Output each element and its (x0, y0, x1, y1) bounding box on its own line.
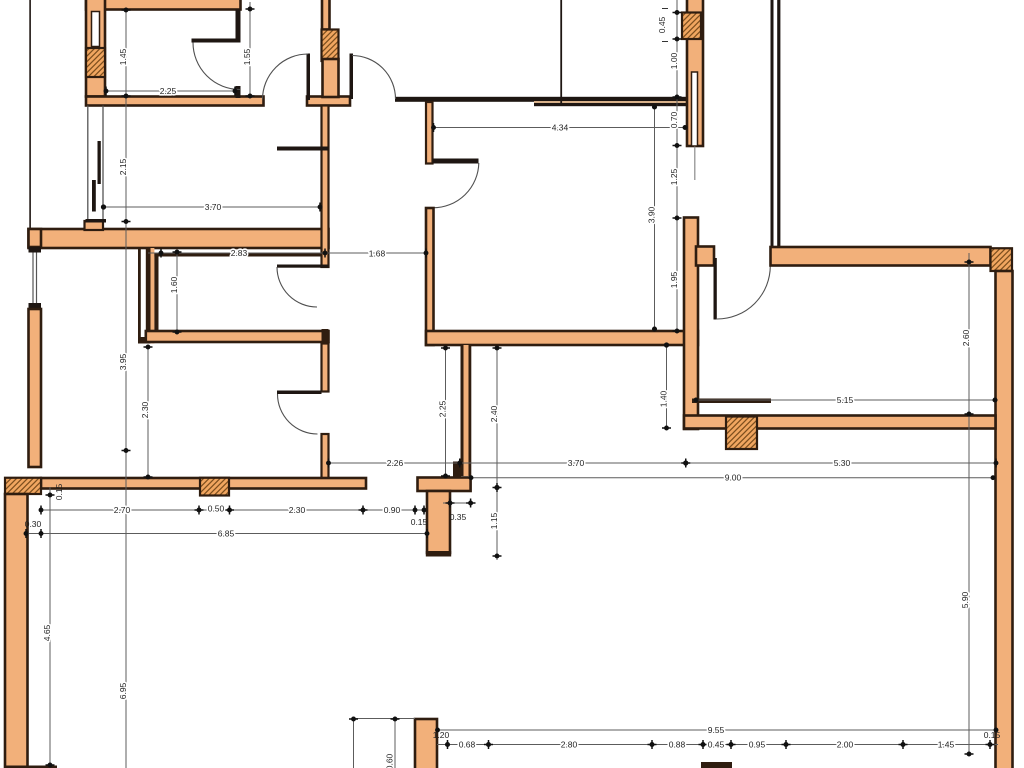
svg-text:0.35: 0.35 (450, 512, 467, 522)
window W4 sill line down (694, 147, 696, 181)
wall L bottom left horizontal (41, 478, 366, 489)
T-wall stem (427, 491, 450, 553)
wall A main horizontal (29, 229, 329, 248)
svg-text:4.34: 4.34 (552, 123, 569, 133)
svg-text:1.60: 1.60 (169, 276, 179, 293)
dim line vertical x654.5 (3.90) (654, 105, 656, 331)
hatched pier P6 (726, 417, 757, 450)
hatched pier P2 (5, 478, 41, 494)
bathroom second line left (146, 248, 151, 344)
dim line horizontal y503 (0.35) (443, 502, 476, 504)
hatched pier P4 top-mid (322, 30, 339, 62)
dim line horizontal y91 (2.25) (105, 90, 236, 92)
thin wall top (x395-533) (395, 97, 534, 102)
bathroom inner face top (154, 253, 321, 257)
black partition stub top-left room (236, 86, 241, 98)
wall E vertical (426, 208, 434, 345)
dim line horizontal y400 (5.15) (695, 399, 997, 401)
svg-text:0.95: 0.95 (749, 740, 766, 750)
svg-text:2.30: 2.30 (140, 401, 150, 418)
black partition jamb top-left room (236, 10, 241, 41)
thin wall top (x533-687) upper line (534, 97, 687, 101)
svg-text:2.25: 2.25 (438, 400, 448, 417)
wall left column upper (86, 0, 105, 97)
svg-text:1.00: 1.00 (669, 52, 679, 69)
bottom-right dark stub (701, 762, 732, 768)
svg-text:0.68: 0.68 (459, 740, 476, 750)
wall left exterior mid lower part (29, 309, 42, 467)
dim chain horizontal y510 (2.70/0.50/2.30/0.90/0.15) (41, 509, 424, 511)
partition D segment 2 (322, 344, 329, 392)
wall top-mid column above pier (322, 0, 330, 30)
dim line horizontal y533.5 (0.30/6.85) (25, 533, 427, 535)
svg-text:9.55: 9.55 (708, 725, 725, 735)
wall K right exterior (996, 271, 1013, 768)
window W3 cap bottom (29, 303, 42, 309)
svg-text:2.25: 2.25 (160, 86, 177, 96)
wall stub above door D3 (426, 102, 433, 164)
hatched pier P1 left column (86, 48, 105, 77)
window W2 leaf bar upper (98, 141, 101, 184)
door D5 arc (278, 394, 318, 434)
partition D dark joint at wall B (322, 329, 329, 344)
closet divider line (277, 147, 329, 151)
door D2 leaf (350, 54, 354, 100)
dim chain vertical x969 (2.60/5.90) (968, 253, 970, 756)
dim line vertical x497 (2.40/1.15) (496, 346, 498, 560)
wall I vertical right of hall (684, 218, 698, 430)
bottom stub wall (415, 719, 437, 768)
svg-text:0.30: 0.30 (25, 519, 42, 529)
wall B bathroom bottom (146, 331, 329, 342)
thin wall jog dark (453, 462, 461, 478)
dim line vertical x50 (0.15/4.65) (49, 487, 51, 767)
svg-text:0.45: 0.45 (708, 740, 725, 750)
door D4 leaf (277, 265, 329, 268)
dim line vertical x666.5 (1.40) (666, 343, 668, 429)
svg-text:3.70: 3.70 (568, 458, 585, 468)
double line partition upper right b (777, 0, 780, 247)
partition D segment 3 (322, 434, 329, 479)
svg-text:2.70: 2.70 (114, 505, 131, 515)
svg-text:1.95: 1.95 (669, 271, 679, 288)
dim chain vertical x677 (0.45/1.00/0.70/1.25/1.95) (676, 0, 678, 331)
window W1 in left column (92, 12, 100, 47)
dim line vertical x250 (1.55) (249, 2, 251, 97)
svg-text:6.95: 6.95 (118, 682, 128, 699)
dim chain vertical x126 (1.45/2.15/3.95/6.95) (125, 8, 127, 768)
door D4 arc (277, 267, 317, 307)
dim line horizontal y477.7 (9.00) (471, 477, 993, 479)
window W2 sill (86, 219, 107, 223)
svg-text:1.45: 1.45 (118, 48, 128, 65)
tick marks (cross + dot) on dimension lines (122, 8, 131, 452)
dim line vertical x395 (0.60) (394, 718, 396, 768)
step line balcony (692, 399, 771, 404)
door D5 leaf (277, 391, 322, 395)
svg-text:5.90: 5.90 (960, 591, 970, 608)
bathroom outer line left (138, 248, 141, 344)
svg-text:3.95: 3.95 (118, 353, 128, 370)
svg-text:2.83: 2.83 (231, 248, 248, 258)
svg-text:0.50: 0.50 (208, 504, 225, 514)
door D3 arc (433, 163, 479, 208)
hatched pier P3 (200, 478, 229, 496)
svg-text:2.60: 2.60 (961, 329, 971, 346)
wall G step (696, 247, 714, 266)
dim line horizontal y718.5 (354, 718, 416, 720)
boundary line left upper (29, 0, 31, 231)
hatched pier P5 right column (682, 13, 701, 40)
wall left exterior mid upper part (29, 229, 42, 247)
door arc top-left room (193, 43, 240, 90)
svg-text:0.15: 0.15 (54, 483, 64, 500)
svg-text:2.30: 2.30 (289, 505, 306, 515)
door leaf top-left room (192, 39, 241, 43)
dim line horizontal y207 (3.70) (103, 206, 321, 208)
svg-text:0.15: 0.15 (984, 730, 1001, 740)
wall right column upper (687, 0, 703, 146)
dim line vertical x353.5 (353, 718, 355, 768)
stub connecting window W2 to wall A (85, 221, 104, 230)
thin wall top (x533-687) lower line (534, 103, 687, 106)
wall J horizontal (684, 416, 996, 429)
svg-text:0.70: 0.70 (669, 111, 679, 128)
svg-text:1.55: 1.55 (242, 48, 252, 65)
door D6 arc (717, 266, 770, 319)
svg-text:5.30: 5.30 (834, 458, 851, 468)
wall F horizontal (426, 331, 698, 345)
dim chain horizontal y463 (2.26/3.70/5.30) (326, 462, 998, 464)
svg-text:2.00: 2.00 (837, 740, 854, 750)
door D1 arc (263, 54, 309, 100)
dim line vertical x445.5 (2.25) (445, 346, 447, 477)
svg-text:1.45: 1.45 (938, 740, 955, 750)
wall h1 horizontal below top rooms (86, 97, 264, 106)
svg-text:2.15: 2.15 (118, 158, 128, 175)
svg-text:3.90: 3.90 (647, 206, 657, 223)
wall top-mid column below pier (323, 59, 339, 97)
svg-text:0.88: 0.88 (669, 740, 686, 750)
svg-text:2.26: 2.26 (387, 458, 404, 468)
svg-text:6.85: 6.85 (218, 529, 235, 539)
svg-text:3.70: 3.70 (205, 202, 222, 212)
svg-text:2.80: 2.80 (561, 740, 578, 750)
thin wall top core tint (534, 101, 687, 103)
window W4 tall in right column (692, 72, 698, 146)
svg-text:4.65: 4.65 (42, 624, 52, 641)
svg-text:2.40: 2.40 (489, 405, 499, 422)
bathroom inner face left (154, 253, 158, 334)
svg-text:1.25: 1.25 (669, 168, 679, 185)
svg-text:9.00: 9.00 (725, 473, 742, 483)
bathroom orange core left (151, 248, 155, 344)
svg-text:0.15: 0.15 (411, 517, 428, 527)
door D2 arc (352, 56, 396, 100)
partition D segment 1 (322, 106, 329, 268)
door D3 leaf (433, 159, 479, 164)
dim chain horizontal y744.5 (0.68/2.80/0.88/0.45/0.95/2.00/1.45) (437, 744, 998, 746)
dim line horizontal y127.5 (4.34) (433, 127, 687, 129)
wall left exterior lower (5, 494, 28, 768)
dim line vertical x177 (1.60) (176, 250, 178, 334)
door D6 leaf (714, 258, 717, 320)
svg-text:1.40: 1.40 (659, 390, 669, 407)
T-wall stem bottom cap (426, 551, 451, 557)
svg-text:0.60: 0.60 (385, 753, 395, 768)
window W2 frame line right (102, 106, 104, 220)
svg-text:5.15: 5.15 (837, 395, 854, 405)
window W3 cap top (29, 247, 42, 253)
svg-text:0.45: 0.45 (657, 16, 667, 33)
thin wall x460-471 upper (461, 345, 464, 476)
window W2 leaf bar lower (92, 180, 96, 212)
svg-text:1.20: 1.20 (433, 730, 450, 740)
T-wall top bar (418, 478, 471, 492)
dim line horizontal y253 (2.83/1.68) (148, 252, 426, 254)
wall mullion between top doors (307, 97, 350, 106)
hatched pier P7 (991, 248, 1013, 271)
svg-text:1.15: 1.15 (489, 512, 499, 529)
wall B foot dark (138, 337, 146, 344)
tilde marks around 0.45 (662, 8, 668, 10)
svg-text:0.90: 0.90 (384, 505, 401, 515)
partition line x561 (560, 0, 562, 103)
dim line horizontal y730 (9.55) (437, 729, 996, 731)
dim line vertical x148 (2.30) (147, 345, 149, 477)
window W3 frame lines (32, 253, 34, 304)
double line partition upper right a (771, 0, 774, 247)
svg-text:1.68: 1.68 (369, 249, 386, 259)
bottom-left corner wall (5, 766, 57, 768)
door D1 leaf (307, 54, 311, 101)
wall top-left exterior (cropped at top) (86, 0, 241, 10)
window W2 frame line left (87, 106, 89, 220)
wall H horizontal right (771, 247, 991, 266)
